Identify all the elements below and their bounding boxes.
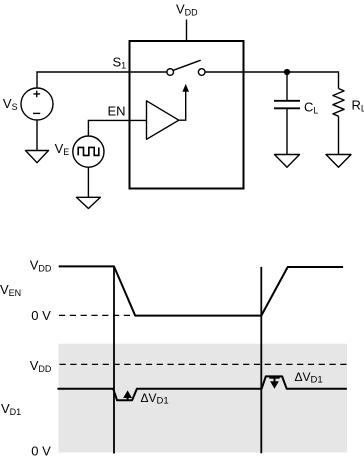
capacitor CL: [274, 101, 300, 109]
timing marker right: [260, 267, 262, 453]
ground under CL: [275, 155, 300, 168]
wire buffer to switch actuator: [179, 91, 186, 120]
svg-text:0 V: 0 V: [31, 444, 51, 459]
wire VS to switch: [37, 72, 167, 89]
net VDD label: [176, 2, 198, 18]
VEN waveform: [59, 266, 343, 315]
delta VD1 label left: [141, 391, 169, 407]
node junction dot: [284, 69, 290, 75]
axis label VD1: [1, 401, 21, 417]
delta VD1 label right: [295, 370, 323, 386]
timing marker left: [113, 266, 115, 453]
axis label VDD (VEN): [30, 257, 52, 273]
buffer driver U1a: [147, 101, 179, 140]
switch S1 throw contact: [198, 69, 205, 76]
voltage source VS: [21, 88, 53, 120]
wire VDD lead: [186, 20, 188, 42]
actuator arrowhead: [182, 84, 189, 92]
wire RL to ground: [338, 116, 340, 154]
ground under RL: [326, 155, 351, 168]
switch S1 pole contact: [167, 69, 174, 76]
wire node to CL: [286, 72, 288, 100]
VDD dashed reference (VD1): [60, 363, 348, 365]
wire VS to ground: [36, 120, 38, 150]
glitch arrow down (right): [269, 378, 279, 389]
axis label 0 V (VEN): [31, 308, 51, 323]
glitch arrow up (left): [123, 390, 132, 400]
wire switch to output node: [205, 72, 339, 89]
wire VE to EN: [88, 120, 147, 136]
resistor RL: [333, 89, 344, 117]
VS minus sign: [33, 112, 40, 114]
0V dashed reference (VEN): [59, 314, 131, 316]
RL value label: [352, 97, 364, 113]
VS label: [3, 96, 18, 112]
VE pulse waveform glyph: [78, 147, 99, 155]
ground under VS: [26, 151, 49, 163]
axis label 0 V (VD1): [31, 444, 51, 459]
VD1 waveform with glitches: [57, 376, 347, 400]
ground under VE: [76, 197, 100, 208]
wire CL to ground: [286, 109, 288, 154]
axis label VDD (VD1): [30, 358, 52, 374]
switch S1 lever: [173, 60, 200, 70]
axis label VEN: [0, 282, 21, 298]
VS plus sign: [33, 91, 40, 98]
pulse source VE: [73, 136, 104, 167]
shaded band: [59, 344, 348, 453]
switch S1 label: [113, 54, 127, 70]
svg-text:0 V: 0 V: [31, 308, 51, 323]
IC box U1: [130, 41, 244, 189]
CL value label: [304, 99, 318, 115]
svg-text:EN: EN: [108, 104, 126, 119]
wire VE to ground: [87, 167, 89, 197]
EN pin label: [108, 104, 126, 119]
VE label: [55, 141, 70, 157]
